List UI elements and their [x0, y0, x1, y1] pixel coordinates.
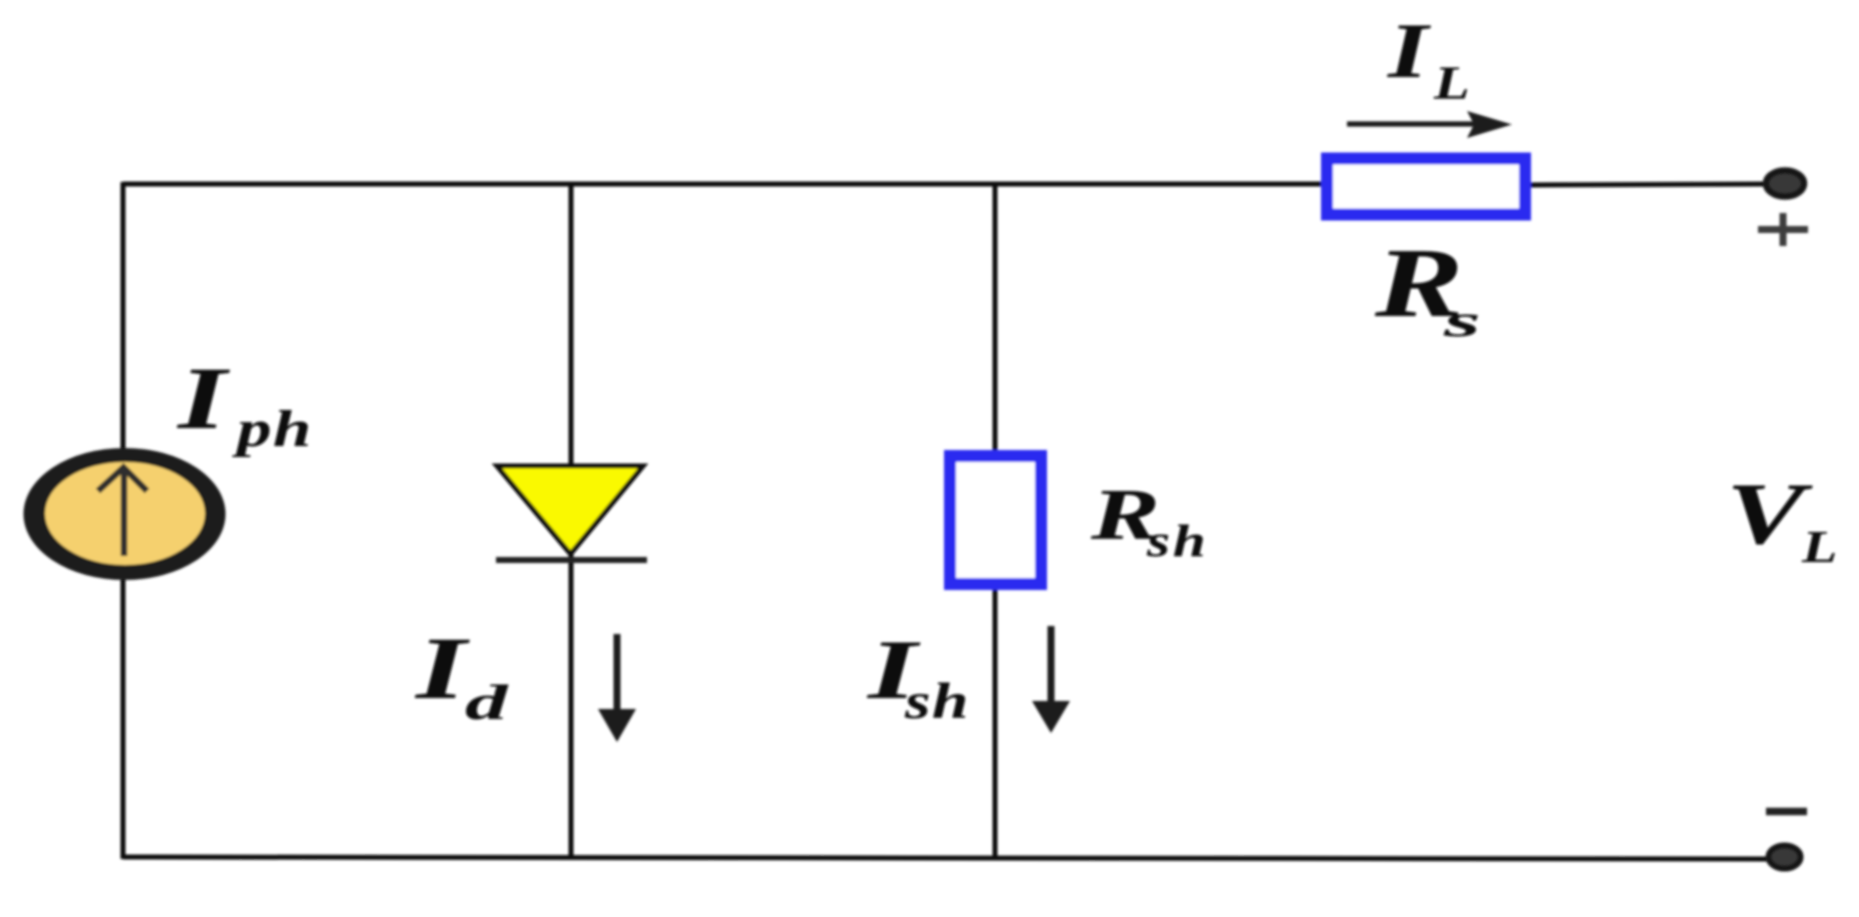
svg-text:sh: sh: [1146, 517, 1209, 567]
svg-text:L: L: [1801, 522, 1838, 573]
svg-text:ph: ph: [231, 400, 312, 458]
svg-text:I: I: [414, 619, 471, 718]
svg-text:d: d: [465, 675, 509, 730]
svg-text:sh: sh: [904, 673, 970, 729]
svg-text:s: s: [1443, 296, 1481, 346]
svg-text:V: V: [1726, 464, 1813, 562]
svg-text:I: I: [176, 350, 231, 448]
svg-text:L: L: [1433, 56, 1470, 110]
svg-text:I: I: [1387, 8, 1432, 94]
